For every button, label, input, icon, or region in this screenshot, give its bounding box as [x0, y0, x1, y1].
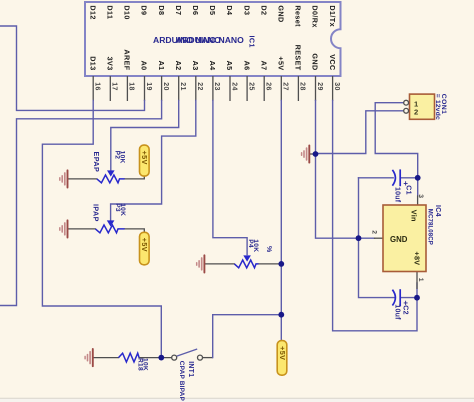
wire net VCC pin30 to +8V node: [333, 101, 417, 331]
svg-text:3: 3: [417, 194, 424, 198]
svg-text:EPAP: EPAP: [92, 152, 101, 173]
svg-text:GND: GND: [390, 235, 408, 244]
svg-text:22: 22: [196, 82, 203, 91]
svg-text:1: 1: [417, 278, 424, 282]
wire P2 to +5V symbol: [125, 175, 145, 179]
svg-text:20: 20: [162, 82, 169, 91]
svg-text:INT1: INT1: [187, 361, 194, 377]
resistor R18 body: [119, 353, 140, 362]
potentiometer P2 wiper arrow: [107, 170, 115, 176]
svg-text:GND: GND: [277, 5, 286, 22]
svg-text:10uf: 10uf: [393, 304, 400, 320]
svg-text:Vin: Vin: [410, 210, 419, 222]
wire P3 ground stem: [68, 228, 96, 230]
svg-text:D4: D4: [225, 5, 234, 15]
wire net A2 pin21 to P2 wiper: [111, 101, 179, 170]
svg-text:27: 27: [282, 82, 289, 91]
wire GND symbol stem near pin29: [309, 153, 315, 155]
potentiometer P4 resistor body: [234, 260, 258, 268]
IC1 pin 27 stub: [280, 76, 282, 101]
node +5V junction at switch branch: [278, 312, 284, 318]
potentiometer P2 resistor body: [97, 175, 125, 183]
IC1 pin 28 stub: [297, 76, 299, 101]
svg-text:IPAP: IPAP: [92, 204, 101, 222]
IC1 pin 23 stub: [212, 76, 214, 101]
svg-text:CPAP BIPAP: CPAP BIPAP: [178, 361, 185, 402]
svg-text:A7: A7: [259, 61, 268, 71]
svg-text:16: 16: [94, 82, 101, 91]
op-amp U/IC1 Arduino Nano body: [85, 2, 341, 76]
svg-text:D12: D12: [88, 5, 97, 19]
switch INT1 lever: [177, 349, 197, 356]
svg-text:10K: 10K: [142, 358, 149, 371]
svg-text:AREF: AREF: [123, 49, 132, 70]
transistor/regulator IC4 body: [383, 205, 426, 272]
IC1 pin 30 stub: [332, 76, 334, 101]
+5V supply symbol at pin27 net: [277, 341, 287, 376]
svg-text:C1: C1: [404, 185, 411, 195]
svg-text:IC1: IC1: [248, 36, 257, 48]
node Vin junction at C1: [415, 175, 421, 181]
potentiometer P3 wiper arrow: [107, 220, 115, 226]
IC1 pin 21 stub: [178, 76, 180, 101]
svg-text:GND: GND: [311, 53, 320, 70]
wire R18 ground stem: [93, 357, 119, 359]
svg-text:= 12vdc: = 12vdc: [434, 94, 441, 120]
wire C2 right plate to +8V node: [400, 297, 417, 299]
svg-text:30: 30: [333, 82, 340, 91]
IC1 pin 26 stub: [263, 76, 265, 101]
wire CON1 pin2 to GND net: [316, 111, 404, 154]
ground near IC1 pin29: [302, 145, 310, 162]
svg-text:D9: D9: [140, 5, 149, 15]
svg-text:A1: A1: [157, 61, 166, 71]
svg-text:D2: D2: [259, 5, 268, 15]
svg-text:Reset: Reset: [294, 5, 303, 27]
capacitor C2: [392, 289, 400, 306]
IC1 pin 19 stub: [144, 76, 146, 101]
potentiometer P4 wiper arrow: [243, 255, 251, 261]
wire net A4 pin23 to P4 wiper: [213, 101, 247, 255]
svg-text:D5: D5: [208, 5, 217, 15]
wire CON1 pin1 to IC4 Vin: [375, 103, 418, 196]
svg-text:%: %: [265, 246, 272, 253]
svg-text:10K: 10K: [252, 239, 259, 252]
wire P4 right end to +5V net: [259, 263, 282, 265]
svg-text:21: 21: [179, 82, 186, 91]
IC1 pin 18 stub: [126, 76, 128, 101]
svg-text:2: 2: [414, 108, 418, 117]
node +8V junction at C2: [414, 295, 420, 301]
svg-text:2: 2: [370, 230, 377, 234]
IC1 pin 29 stub: [315, 76, 317, 101]
wire net D13 pin16 to switch junction: [42, 101, 161, 358]
svg-text:A5: A5: [225, 61, 234, 71]
node GND junction at ground symbol: [313, 151, 319, 157]
ground at P4: [197, 255, 205, 272]
IC4 pin 1 stub: [416, 272, 418, 289]
IC1 pin 24 stub: [229, 76, 231, 101]
svg-text:D13: D13: [88, 56, 97, 70]
wire GND branch C1 left to C2 left: [359, 178, 395, 298]
svg-text:23: 23: [213, 82, 220, 91]
connector CON1 pin 2 circle: [404, 108, 409, 113]
node D13 junction at R18/INT1: [158, 355, 164, 361]
potentiometer P3 resistor body: [95, 225, 124, 233]
IC1 pin 25 stub: [246, 76, 248, 101]
svg-text:+5V: +5V: [140, 151, 149, 165]
+5V supply symbol at P3: [140, 232, 150, 264]
svg-text:D1/Tx: D1/Tx: [328, 5, 337, 27]
capacitor C1: [392, 169, 400, 186]
svg-text:ARDUINO NANO: ARDUINO NANO: [176, 35, 244, 45]
connector CON1 pin 1 circle: [404, 100, 409, 105]
svg-text:28: 28: [299, 82, 306, 91]
svg-text:17: 17: [111, 82, 118, 91]
switch INT1 left contact: [172, 355, 177, 360]
svg-text:CON1: CON1: [440, 94, 447, 114]
wire net A3 pin22 to P3 wiper: [111, 101, 196, 220]
svg-text:19: 19: [145, 82, 152, 91]
svg-text:+8V: +8V: [413, 252, 422, 266]
node GND junction at IC4 pin2: [356, 235, 362, 241]
svg-text:10uf: 10uf: [394, 187, 401, 203]
svg-text:D7: D7: [174, 5, 183, 15]
ground at R18: [85, 349, 93, 366]
wire P3 to +5V symbol: [125, 229, 145, 232]
connector CON1 body: [410, 94, 435, 119]
IC4 pin 2 stub: [375, 237, 384, 239]
wire INT1 branch to +5V net: [213, 315, 282, 358]
wire INT1 right lead: [203, 357, 213, 359]
svg-text:26: 26: [265, 82, 272, 91]
svg-text:18: 18: [128, 82, 135, 91]
svg-text:D8: D8: [157, 5, 166, 15]
wire P2 ground stem: [68, 178, 97, 180]
svg-text:A6: A6: [242, 61, 251, 71]
IC4 pin 3 stub: [417, 196, 419, 205]
IC1 pin 16 stub: [92, 76, 94, 101]
svg-text:A2: A2: [174, 61, 183, 71]
IC1 pin 20 stub: [161, 76, 163, 101]
ground at P3: [60, 220, 68, 237]
wire net +5V pin27 down to +5V symbol: [280, 101, 282, 341]
svg-text:A3: A3: [191, 61, 200, 71]
IC1 pin 17 stub: [109, 76, 111, 101]
wire P4 ground stem: [204, 263, 234, 265]
wire net A1 pin20 to left edge bottom: [0, 101, 162, 306]
svg-text:3V3: 3V3: [106, 57, 115, 71]
svg-text:+5V: +5V: [278, 346, 287, 360]
svg-text:D10: D10: [123, 5, 132, 19]
svg-text:RESET: RESET: [294, 45, 303, 71]
svg-text:10K: 10K: [119, 151, 126, 164]
svg-text:A4: A4: [208, 61, 217, 71]
svg-text:MC78L08CP: MC78L08CP: [427, 209, 434, 245]
svg-text:24: 24: [230, 82, 237, 91]
wire R18 right to INT1 left: [139, 357, 171, 359]
svg-text:D6: D6: [191, 5, 200, 15]
wire C1 left plate to GND branch: [359, 177, 394, 179]
IC1 pin 22 stub: [195, 76, 197, 101]
wire IC4 pin1 to +8V node: [416, 283, 418, 298]
svg-text:10K: 10K: [119, 203, 126, 216]
node +5V junction at P4: [278, 261, 284, 267]
wire C1 right plate to Vin node: [400, 177, 418, 179]
svg-text:IC4: IC4: [434, 205, 441, 217]
svg-text:D3: D3: [242, 5, 251, 15]
svg-text:29: 29: [316, 82, 323, 91]
wire net GND pin29 down to IC4 pin2: [316, 101, 359, 239]
svg-text:+5V: +5V: [277, 56, 286, 70]
ground at P2: [60, 170, 68, 187]
+5V supply symbol at P2: [140, 145, 150, 176]
svg-text:25: 25: [247, 82, 254, 91]
switch INT1 right contact: [198, 355, 203, 360]
svg-text:VCC: VCC: [328, 54, 337, 70]
svg-text:A0: A0: [140, 61, 149, 71]
svg-text:D0/Rx: D0/Rx: [311, 5, 320, 27]
svg-text:C2: C2: [401, 305, 408, 315]
wire GND node to IC4 pin2 stub: [359, 237, 375, 239]
svg-text:D11: D11: [106, 5, 115, 19]
bottom margin strip: [0, 398, 474, 402]
svg-text:+5V: +5V: [140, 238, 149, 252]
wire net A0 pin19 to left edge: [0, 26, 145, 110]
